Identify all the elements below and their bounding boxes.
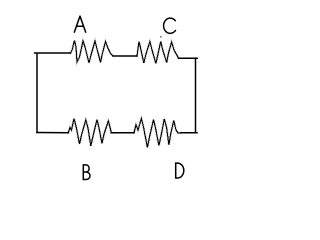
resistor B: [68, 119, 111, 147]
node label A: [74, 16, 85, 32]
resistor C: [137, 42, 179, 64]
node label B: [83, 165, 90, 180]
resistor D: [134, 119, 181, 148]
wire left vertical: [36, 54, 38, 133]
wire right vertical: [195, 58, 197, 132]
wire top right: [179, 57, 198, 59]
resistor A: [71, 41, 114, 64]
wire bottom middle: [111, 132, 134, 134]
wire top left: [35, 52, 71, 54]
wire bottom right: [181, 132, 197, 134]
wire bottom left: [37, 132, 68, 134]
node label D: [176, 163, 184, 178]
wire top middle: [113, 55, 137, 57]
node dot (blue mark near C): [160, 36, 162, 38]
node label C: [164, 18, 176, 33]
